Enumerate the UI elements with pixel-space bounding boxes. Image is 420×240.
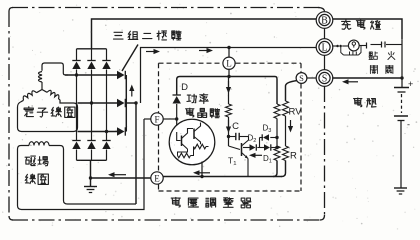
diode D3 upper: [260, 137, 264, 139]
label 電瓶 (battery): [354, 98, 362, 107]
junction phase3: [105, 130, 108, 133]
junction E wire / ground drop: [89, 176, 92, 179]
resistor RV: [283, 101, 289, 116]
darlington internal links: [178, 149, 188, 156]
current arrow on L rail left: [146, 51, 154, 53]
ground symbol alternator: [84, 186, 97, 188]
label 磁場 (field): [25, 156, 35, 166]
stator wiring frame: [18, 100, 78, 132]
battery cell 2 positive plate: [394, 115, 408, 117]
svg-text:+: +: [408, 79, 413, 89]
wire phase rail 3: [78, 131, 118, 133]
wire R to ground rail: [282, 161, 286, 177]
lamp parallel branch: [341, 46, 344, 55]
label 充電燈 (charge lamp): [342, 20, 351, 29]
trio diode 3: [117, 127, 125, 135]
current arrow on E wire: [115, 174, 127, 176]
rectifier negative bus: [77, 159, 107, 161]
darlington emitter resistor 1: [194, 144, 207, 149]
wire stub B-L: [324, 28, 326, 38]
bridge diode 3 upper: [106, 49, 108, 61]
label 點火 (ignition): [369, 52, 378, 60]
battery riser wire: [401, 39, 403, 87]
terminal B case (double circle): [316, 12, 333, 29]
battery middle cells (dashed): [401, 94, 403, 113]
voltage regulator enclosure (dashed): [159, 62, 223, 64]
wire F terminal to F node: [163, 118, 177, 120]
battery cell 1 negative plate: [398, 91, 406, 93]
junction L rail / L sub-terminal: [227, 46, 230, 49]
junction capacitor tap: [227, 135, 230, 138]
label 線圈 (coil): [25, 174, 35, 184]
stator phase-1 coil: [41, 82, 43, 90]
wire S sub to terminal S: [307, 77, 317, 79]
resistor R: [283, 146, 289, 161]
wire RV to R: [285, 116, 287, 146]
terminal S case (double circle): [316, 70, 333, 87]
stator phase-2 coil (lower-left branch): [37, 90, 43, 93]
junction phase2: [90, 101, 93, 104]
trio diode 2: [117, 99, 125, 107]
svg-text:S: S: [299, 73, 304, 83]
T1 collector branch with resistor: [228, 77, 230, 105]
trio diode 1: [117, 71, 125, 79]
svg-text:R: R: [290, 151, 297, 162]
label 功率 (power): [187, 94, 197, 102]
ignition switch contacts: [366, 43, 368, 49]
svg-text:RV: RV: [289, 107, 303, 118]
wire negative bus to ground: [90, 160, 92, 186]
bridge diode 1 lower: [76, 75, 78, 141]
wire L rail from trio bus to terminal L: [141, 48, 317, 104]
wire F node into darlington: [176, 119, 178, 132]
pointer from label to trio diode: [122, 45, 138, 72]
current arrow on ground rail: [200, 172, 211, 174]
junction F node: [175, 117, 178, 120]
svg-text:F: F: [154, 114, 159, 124]
charge lamp bulb: [348, 40, 359, 51]
wire phase rail 2: [78, 102, 118, 104]
junction D1 divider: [275, 146, 278, 149]
current arrow up trio bus: [131, 91, 133, 97]
terminal S regulator: [296, 73, 307, 84]
wire S sub-terminal to RV branch: [286, 81, 298, 102]
wire phase rail 1: [65, 74, 117, 76]
diode D2: [250, 144, 256, 150]
wire switch to battery riser: [386, 44, 402, 46]
wire L terminal to lamp: [332, 45, 337, 47]
terminal E: [151, 172, 163, 184]
terminal F: [151, 113, 163, 125]
terminal L case (double circle): [316, 39, 333, 56]
wire stub L-S: [324, 55, 326, 69]
current arrow down T1 branch: [228, 81, 230, 87]
current arrow under D2: [256, 154, 263, 156]
diode D field flyback: [173, 94, 181, 96]
bridge diode 2 lower: [91, 103, 93, 141]
svg-text:D: D: [181, 82, 188, 93]
bridge diode 1 upper: [76, 49, 78, 61]
svg-text:B: B: [321, 16, 328, 27]
label 定子線圈 (stator coil): [24, 107, 33, 117]
svg-text:E: E: [154, 173, 160, 183]
ground symbol battery: [394, 187, 407, 189]
darlington driver transistor: [177, 132, 181, 141]
wire stator phase-1 to column tap: [42, 63, 68, 75]
wire field node down to field coil return: [135, 103, 137, 204]
wire F terminal to return path: [144, 118, 151, 120]
wire L sub-terminal to S rail: [228, 69, 230, 77]
label 電晶體 (transistor): [186, 108, 194, 117]
divider branch upper resistor: [275, 77, 277, 105]
wire T1 to diode D2: [243, 147, 250, 149]
capacitor C: [229, 136, 236, 138]
wire bridge+ to terminal B: [92, 19, 317, 49]
junction battery positive node: [400, 76, 403, 79]
darlington emitter resistor 2: [178, 153, 191, 158]
junction field node: [134, 101, 137, 104]
divider branch lower resistor: [276, 138, 278, 147]
battery cell 1 positive plate: [394, 87, 409, 89]
wire stub case top to terminal B: [318, 8, 325, 13]
rectifier positive bus: [77, 48, 107, 50]
current arrow down T1 branch lower: [228, 120, 230, 127]
wire E to bridge ground: [91, 177, 151, 179]
wire darlington emitter to ground rail: [201, 162, 203, 177]
junction D3 divider: [275, 136, 278, 139]
wire lamp to switch: [359, 45, 366, 47]
terminal L regulator: [223, 57, 235, 69]
label 電壓調整器 (voltage regulator): [171, 197, 180, 207]
diode D1 lower: [260, 147, 265, 149]
stator phase-3 coil (lower-right branch): [42, 90, 47, 93]
battery cell 2 negative plate: [398, 120, 405, 122]
current arrow on battery-S wire: [349, 81, 359, 83]
label 開關 (switch): [370, 66, 377, 74]
wire battery negative down: [400, 121, 402, 188]
wire terminal B to battery riser: [332, 19, 402, 39]
darlington output transistor: [193, 129, 195, 140]
connector contact marks: [336, 45, 339, 48]
svg-text:L: L: [321, 43, 327, 54]
label 三組二極體 (three diode group): [114, 32, 124, 39]
svg-text:L: L: [226, 59, 232, 69]
svg-text:C: C: [232, 121, 239, 132]
wire L rail down to L sub-terminal: [228, 48, 230, 58]
alternator case border (dash-dot): [12, 7, 321, 9]
regulator ground rail: [163, 176, 282, 178]
power darlington circle: [169, 119, 215, 165]
wire terminal S to battery positive: [332, 77, 402, 79]
field coil loop and bottom return wire: [18, 119, 145, 210]
junction phase1: [75, 73, 78, 76]
current arrow on L rail right: [199, 50, 207, 52]
transistor T1: [229, 146, 241, 150]
wire trio bus to field node: [126, 102, 136, 104]
field coil winding: [29, 142, 49, 146]
S rail wire: [177, 77, 275, 96]
junction S rail T1 branch: [227, 75, 230, 78]
current arrow down RV branch: [290, 120, 292, 126]
bridge diode 2 upper: [91, 49, 93, 61]
diode block left link: [257, 147, 259, 149]
svg-text:S: S: [322, 74, 328, 85]
bridge diode 3 lower: [106, 132, 108, 141]
trio output bus: [125, 75, 127, 132]
